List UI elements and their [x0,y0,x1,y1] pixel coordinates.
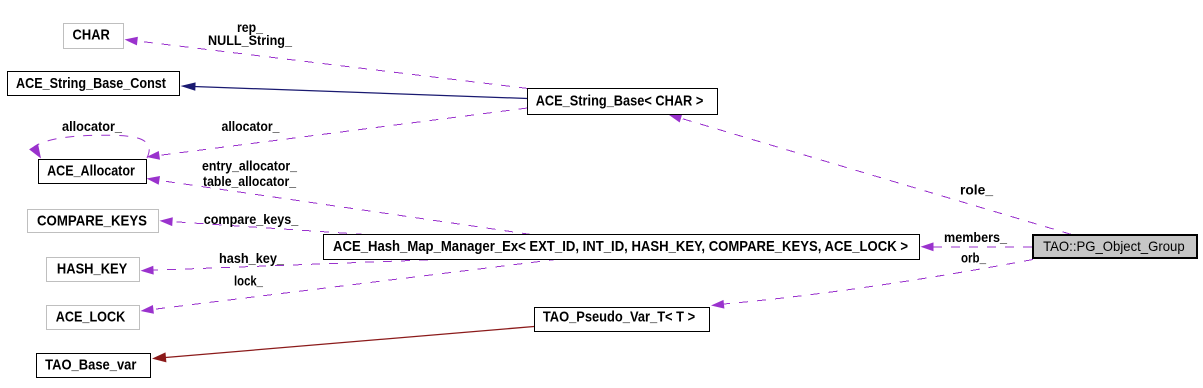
svg-text:ACE_LOCK: ACE_LOCK [56,309,126,326]
svg-text:ACE_String_Base_Const: ACE_String_Base_Const [16,75,166,92]
svg-text:members_: members_ [944,229,1007,245]
svg-text:CHAR: CHAR [73,27,110,44]
svg-text:ACE_String_Base< CHAR >: ACE_String_Base< CHAR > [536,93,704,110]
svg-text:TAO::PG_Object_Group: TAO::PG_Object_Group [1043,238,1185,254]
svg-text:HASH_KEY: HASH_KEY [57,261,127,278]
svg-text:orb_: orb_ [961,250,986,266]
svg-text:TAO_Pseudo_Var_T< T >: TAO_Pseudo_Var_T< T > [543,308,696,325]
svg-text:TAO_Base_var: TAO_Base_var [45,357,136,374]
svg-text:NULL_String_: NULL_String_ [208,32,292,48]
svg-text:ACE_Allocator: ACE_Allocator [47,162,135,179]
svg-text:lock_: lock_ [234,273,263,289]
svg-text:COMPARE_KEYS: COMPARE_KEYS [37,213,147,230]
svg-text:hash_key_: hash_key_ [219,250,284,266]
svg-text:table_allocator_: table_allocator_ [203,173,296,189]
svg-text:allocator_: allocator_ [222,118,280,134]
svg-text:allocator_: allocator_ [62,118,122,134]
svg-text:entry_allocator_: entry_allocator_ [202,158,297,174]
svg-text:compare_keys_: compare_keys_ [204,211,299,227]
svg-text:ACE_Hash_Map_Manager_Ex< EXT_I: ACE_Hash_Map_Manager_Ex< EXT_ID, INT_ID,… [333,238,908,255]
svg-text:role_: role_ [960,182,993,198]
